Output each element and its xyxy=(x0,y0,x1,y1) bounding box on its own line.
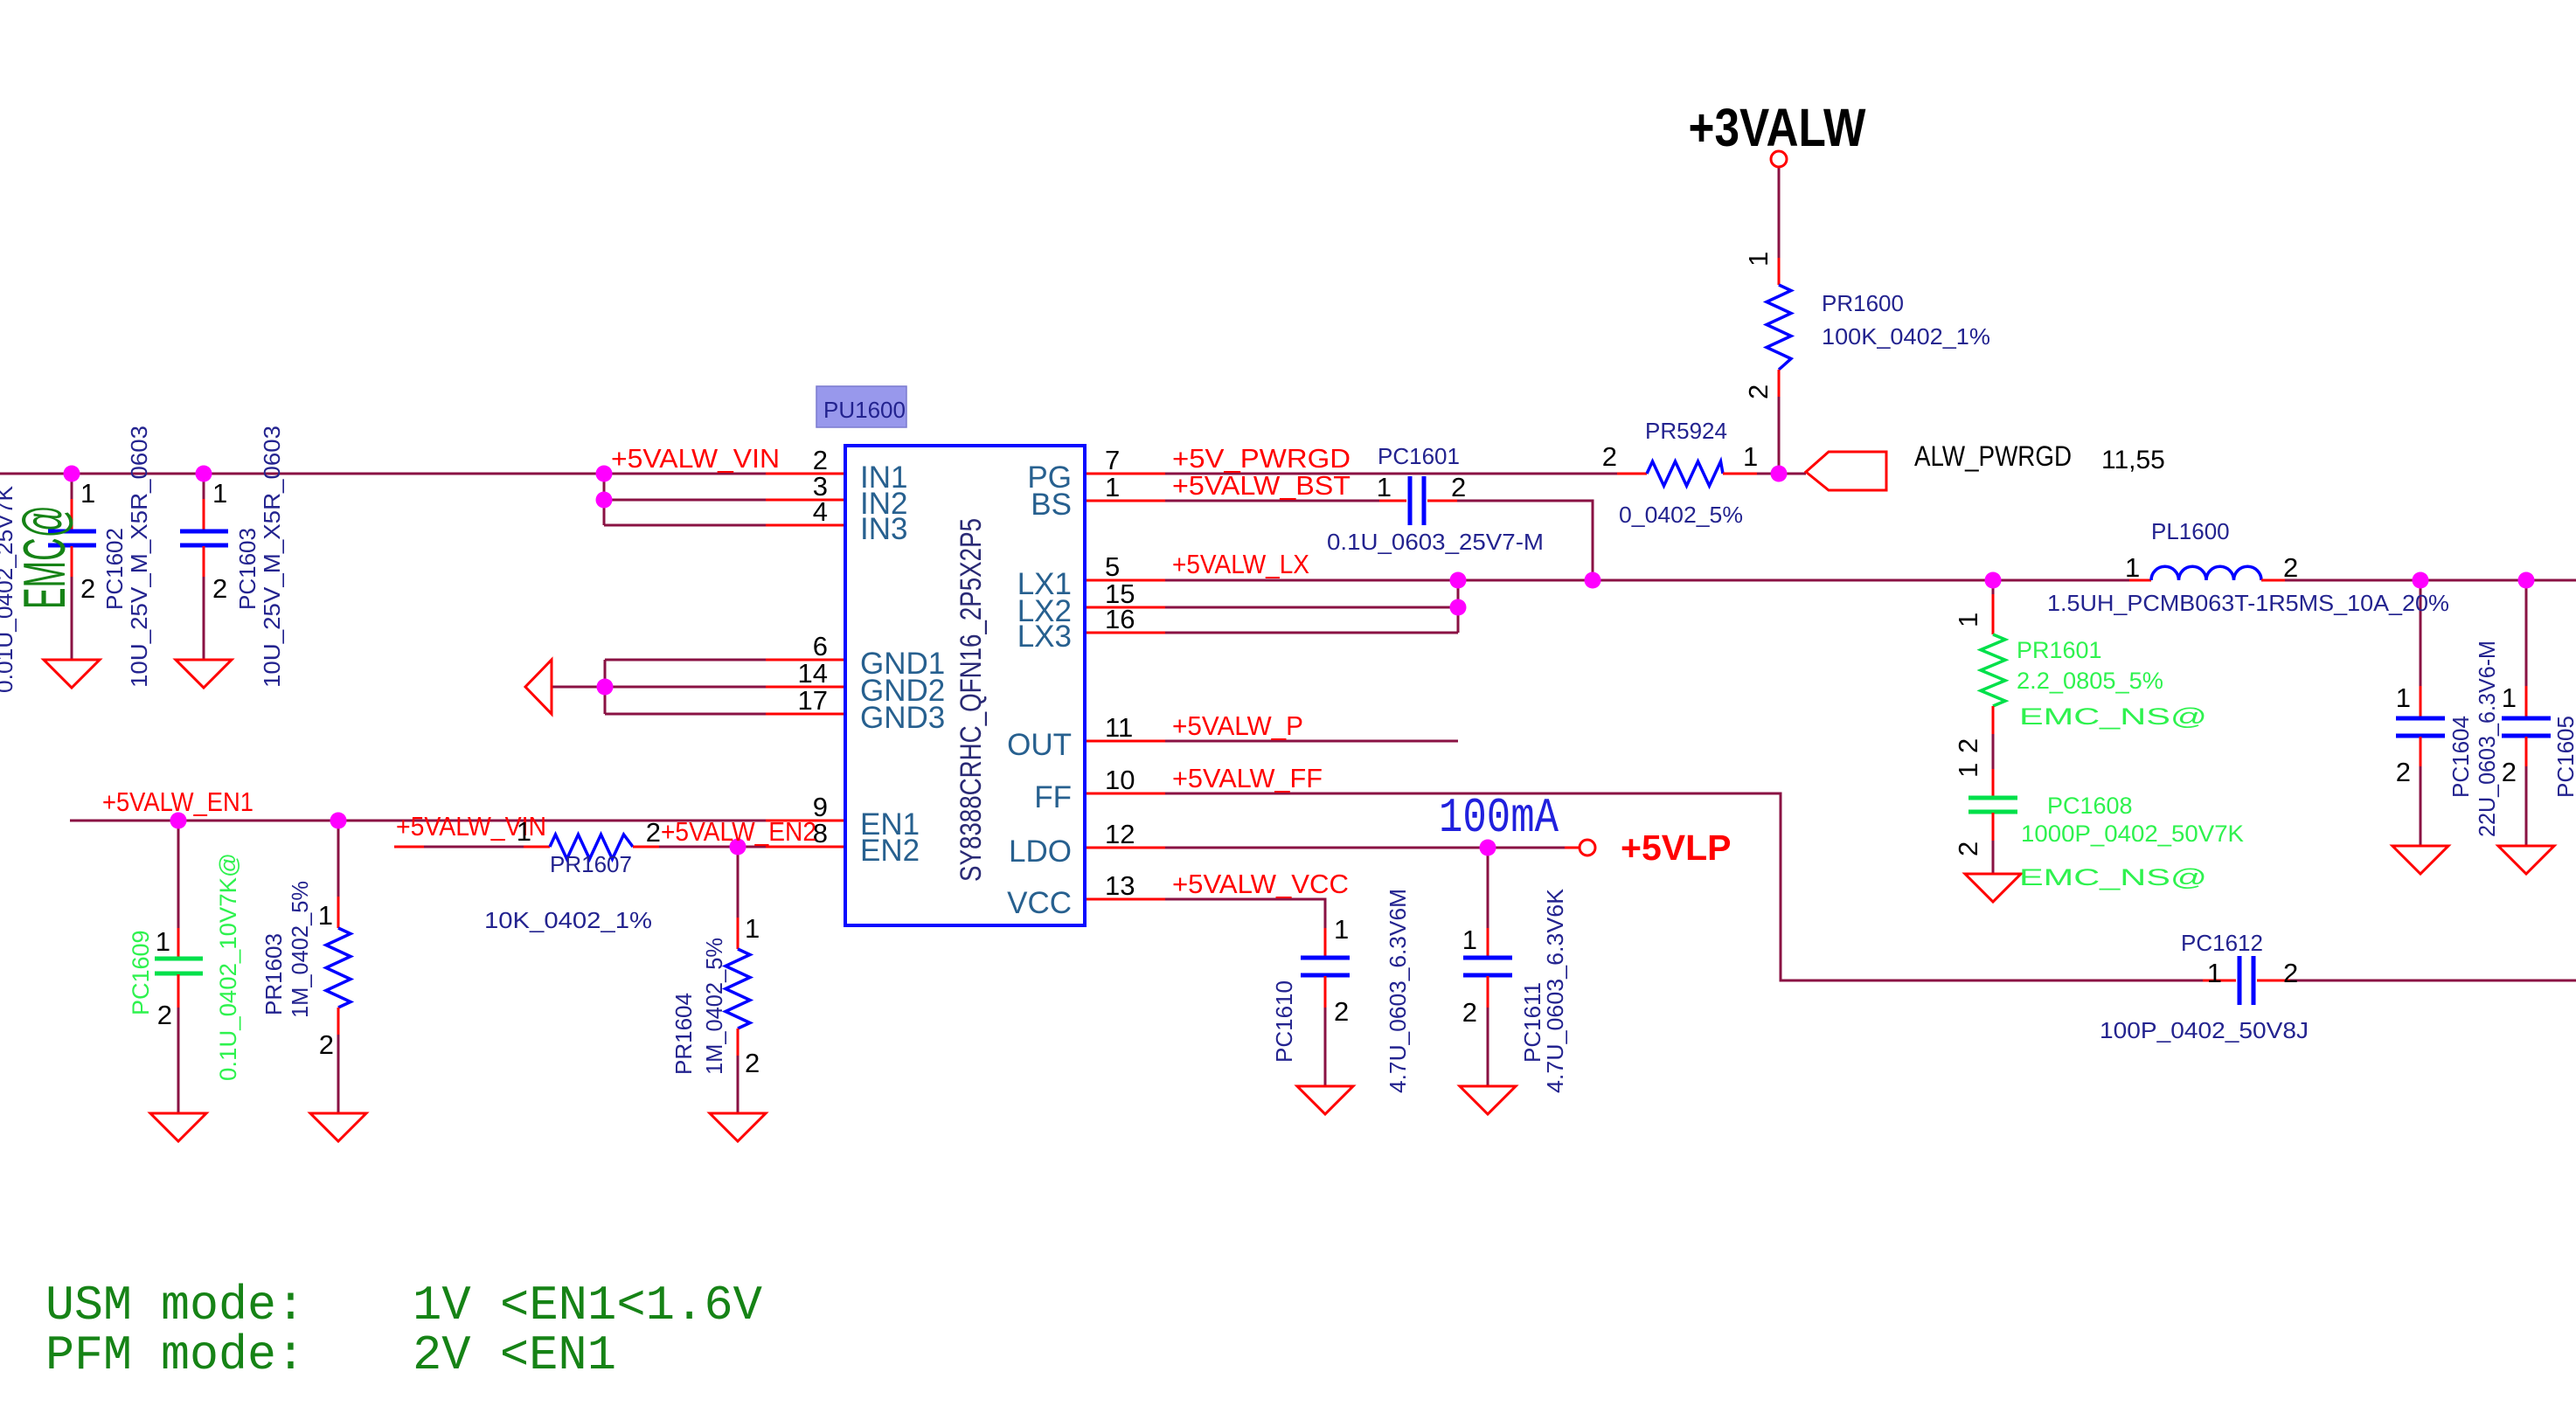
svg-text:EN2: EN2 xyxy=(860,834,920,868)
label PR1600 xyxy=(1822,290,1990,350)
resistor PR1607 xyxy=(524,835,659,859)
node LX1 junction xyxy=(1450,572,1467,589)
svg-text:2: 2 xyxy=(2283,552,2298,583)
svg-text:+5V_PWRGD: +5V_PWRGD xyxy=(1172,443,1350,474)
svg-text:2: 2 xyxy=(1953,738,1983,753)
svg-text:16: 16 xyxy=(1105,604,1135,634)
pin 2 PC1601 xyxy=(1451,472,1466,502)
pin number 7 xyxy=(1105,445,1120,475)
label PC1602 xyxy=(101,426,152,688)
label PU pin PR5924 xyxy=(1619,418,1743,528)
svg-text:+5VALW_BST: +5VALW_BST xyxy=(1172,470,1350,501)
capacitor PC1602 xyxy=(48,499,96,577)
node LX2 junction xyxy=(1450,599,1467,616)
capacitor PC1603 xyxy=(180,499,228,577)
svg-text:4: 4 xyxy=(813,496,828,527)
svg-text:PFM mode:: PFM mode: xyxy=(45,1327,305,1383)
svg-text:PC1608: PC1608 xyxy=(2047,793,2133,819)
pin name VCC xyxy=(1007,886,1072,920)
ground PC1602 xyxy=(44,660,100,688)
svg-text:PC1609: PC1609 xyxy=(128,930,154,1015)
svg-text:2: 2 xyxy=(157,1000,172,1030)
note PFM mode xyxy=(45,1327,616,1383)
node PC1602 on +5VALW_VIN xyxy=(64,466,80,482)
svg-text:PC1602: PC1602 xyxy=(101,528,128,610)
pin 2 PC1604 xyxy=(2396,757,2411,787)
svg-text:1: 1 xyxy=(1462,925,1477,955)
pin 1 PC1610 xyxy=(1334,914,1349,945)
svg-text:1: 1 xyxy=(1743,441,1758,472)
svg-text:10: 10 xyxy=(1105,765,1135,795)
svg-text:PR1604: PR1604 xyxy=(670,993,697,1075)
svg-text:2: 2 xyxy=(1462,997,1477,1028)
pin name IN1 xyxy=(860,461,907,495)
svg-text:10U_25V_M_X5R_0603: 10U_25V_M_X5R_0603 xyxy=(126,426,152,688)
pin stub BS pin 1 xyxy=(1085,500,1165,502)
svg-text:+5VALW_EN2: +5VALW_EN2 xyxy=(661,816,816,847)
pin 2 PL1600 xyxy=(2283,552,2298,583)
current label 100mA xyxy=(1439,790,1559,846)
node PC1605 junction xyxy=(2518,572,2535,589)
pin stub IN3 pin 4 xyxy=(766,524,845,527)
svg-text:1000P_0402_50V7K: 1000P_0402_50V7K xyxy=(2021,821,2244,847)
pin stub EN1 pin 9 xyxy=(766,820,845,822)
capacitor PC1605 xyxy=(2502,686,2551,766)
pin number 14 xyxy=(798,658,828,689)
power label +3VALW xyxy=(1689,98,1866,157)
ground PC1604 xyxy=(2392,846,2448,874)
pin name GND2 xyxy=(860,674,945,708)
pin stub LX3 pin 16 xyxy=(1085,632,1165,634)
svg-text:+5VALW_LX: +5VALW_LX xyxy=(1172,549,1309,579)
wire +5VALW_EN1 xyxy=(70,820,766,822)
svg-text:11: 11 xyxy=(1105,712,1133,743)
wire LDO to +5VLP xyxy=(1165,847,1565,849)
wire PC1609 upper xyxy=(177,821,180,928)
wire IN2/IN3 branch vertical xyxy=(603,474,606,525)
svg-text:SY8388CRHC_QFN16_2P5X2P5: SY8388CRHC_QFN16_2P5X2P5 xyxy=(955,518,988,882)
wire +5VALW_VIN bus xyxy=(0,473,766,475)
pin 2 PC1610 xyxy=(1334,996,1349,1027)
node PR1601/PL1600 junction xyxy=(1985,572,2002,589)
pin number 3 xyxy=(813,471,828,502)
svg-text:1: 1 xyxy=(517,816,531,847)
pin stub GND1 pin 6 xyxy=(766,659,845,661)
svg-text:PC1601: PC1601 xyxy=(1378,443,1460,469)
ground PR1603 xyxy=(310,1113,366,1141)
svg-text:6: 6 xyxy=(813,631,828,661)
svg-text:2: 2 xyxy=(2283,958,2298,988)
pin 2 PC1603 xyxy=(212,573,227,604)
svg-text:22U_0603_6.3V6-M: 22U_0603_6.3V6-M xyxy=(2474,641,2500,837)
wire PR1604 upper xyxy=(737,847,739,918)
svg-text:2: 2 xyxy=(1953,842,1983,856)
svg-text:1M_0402_5%: 1M_0402_5% xyxy=(287,881,313,1018)
svg-text:17: 17 xyxy=(798,685,828,716)
svg-text:1: 1 xyxy=(1105,472,1120,502)
svg-text:1V <EN1<1.6V: 1V <EN1<1.6V xyxy=(413,1278,762,1333)
pin number 15 xyxy=(1105,578,1135,609)
node ALW_PWRGD junction xyxy=(1771,466,1788,482)
label PR1604 xyxy=(670,938,727,1075)
capacitor PC1611 xyxy=(1463,928,1512,1008)
pin stub GND2 pin 14 xyxy=(766,686,845,689)
svg-text:1: 1 xyxy=(1377,472,1392,502)
svg-text:FF: FF xyxy=(1034,780,1072,814)
svg-text:BS: BS xyxy=(1031,488,1072,522)
label EMC_NS@ lower xyxy=(2019,864,2207,890)
pin name PG xyxy=(1027,461,1072,495)
pin stub FF pin 10 xyxy=(1085,793,1165,795)
label PR1601 xyxy=(2017,637,2163,694)
svg-text:1.5UH_PCMB063T-1R5MS_10A_20%: 1.5UH_PCMB063T-1R5MS_10A_20% xyxy=(2047,590,2449,616)
svg-text:2V <EN1: 2V <EN1 xyxy=(413,1327,616,1383)
svg-text:PC1604: PC1604 xyxy=(2448,716,2474,798)
wire PR1603 lower xyxy=(337,1035,340,1113)
svg-text:12: 12 xyxy=(1105,819,1135,849)
wire GND vertical xyxy=(604,660,607,714)
svg-text:PC1603: PC1603 xyxy=(234,528,260,610)
pin 1 PC1612 xyxy=(2207,958,2222,988)
wire LX3 xyxy=(1165,632,1458,634)
pin name GND1 xyxy=(860,647,945,681)
wire GND2 xyxy=(552,686,766,689)
node GND2 branch xyxy=(597,679,614,696)
pin stub LX2 pin 15 xyxy=(1085,606,1165,609)
net label +5VALW_EN1 xyxy=(102,786,253,817)
pin 2 PR1604 xyxy=(745,1048,760,1078)
pin 1 PC1601 xyxy=(1377,472,1392,502)
pin stub VCC pin 13 xyxy=(1085,898,1165,901)
pin 2 PR5924 xyxy=(1602,441,1617,472)
svg-text:1: 1 xyxy=(156,926,170,957)
power terminal +3VALW xyxy=(1771,151,1787,167)
pin 1 PR1607 xyxy=(517,816,531,847)
pin 1 PC1608 xyxy=(1953,763,1983,778)
pin stub LX1 pin 5 xyxy=(1085,579,1165,582)
net label +5VALW_VIN top xyxy=(611,443,780,474)
note USM mode xyxy=(45,1278,762,1333)
wire PC1612 net right xyxy=(2290,980,2576,982)
label PC1610 xyxy=(1271,889,1411,1093)
svg-text:PC1610: PC1610 xyxy=(1271,980,1297,1063)
svg-text:PR1607: PR1607 xyxy=(550,851,632,877)
pin 2 PC1608 xyxy=(1953,842,1983,856)
pin name LDO xyxy=(1009,835,1072,869)
svg-text:+3VALW: +3VALW xyxy=(1689,98,1866,157)
svg-text:1: 1 xyxy=(318,900,333,931)
pin 1 PC1609 xyxy=(156,926,170,957)
svg-text:EMC@: EMC@ xyxy=(11,505,78,609)
svg-text:PR1600: PR1600 xyxy=(1822,290,1904,316)
svg-text:1: 1 xyxy=(2502,682,2517,713)
label PR1603 xyxy=(260,881,313,1018)
pin number 17 xyxy=(798,685,828,716)
svg-text:1: 1 xyxy=(80,478,95,509)
svg-text:10K_0402_1%: 10K_0402_1% xyxy=(484,907,652,933)
node PR1603 on +5VALW_EN1 xyxy=(330,813,347,829)
svg-text:PL1600: PL1600 xyxy=(2151,518,2230,544)
pin 1 PR1603 xyxy=(318,900,333,931)
svg-text:14: 14 xyxy=(798,658,828,689)
net label +5VALW_LX xyxy=(1172,549,1309,579)
svg-text:2: 2 xyxy=(646,817,661,848)
wire +5VALW_EN2 xyxy=(659,846,766,848)
svg-text:100mA: 100mA xyxy=(1439,790,1559,846)
label PL1600 xyxy=(2047,518,2449,616)
pin stub PG pin 7 xyxy=(1085,473,1165,475)
pin number 10 xyxy=(1105,765,1135,795)
ground PR1604 xyxy=(710,1113,766,1141)
svg-text:2: 2 xyxy=(745,1048,760,1078)
wire PC1611 lower xyxy=(1487,1008,1489,1086)
wire +5VALW_VIN EN2 left xyxy=(394,846,524,848)
wire PC1603 lower xyxy=(203,575,205,660)
label EMC_NS@ upper xyxy=(2019,703,2207,730)
svg-text:PC1612: PC1612 xyxy=(2181,930,2263,956)
net label +5VALW_FF xyxy=(1172,763,1323,793)
net label +5V_PWRGD xyxy=(1172,443,1350,474)
wire PC1605 lower xyxy=(2525,766,2528,846)
svg-text:2: 2 xyxy=(1743,384,1774,399)
svg-text:PR1603: PR1603 xyxy=(260,933,287,1015)
svg-text:+5VALW_EN1: +5VALW_EN1 xyxy=(102,786,253,817)
op-amp U1 highlight PU1600 xyxy=(816,386,906,427)
label PC1603 xyxy=(234,426,285,688)
label 0.01U cap offscreen xyxy=(0,485,17,693)
svg-text:2: 2 xyxy=(2502,757,2517,787)
node IN2 branch xyxy=(596,492,613,509)
wire +5VALW_FF xyxy=(1165,793,2203,980)
sheet reference 11,55 xyxy=(2101,446,2165,474)
wire +5VALW_LX rail xyxy=(1165,579,2129,582)
power label +5VLP xyxy=(1621,828,1731,868)
wire PR1601 to PC1608 xyxy=(1992,734,1995,769)
pin 1 PC1602 xyxy=(80,478,95,509)
pin name EN1 xyxy=(860,807,920,842)
label PC1605 xyxy=(2552,716,2576,798)
wire IN2 xyxy=(604,499,766,502)
node PC1609 on +5VALW_EN1 xyxy=(170,813,187,829)
ground PC1610 xyxy=(1297,1086,1353,1114)
svg-text:PU1600: PU1600 xyxy=(823,397,906,423)
svg-text:2: 2 xyxy=(1602,441,1617,472)
resistor PR1601 xyxy=(1981,594,2005,734)
pin name LX3 xyxy=(1017,620,1072,654)
pin name IN2 xyxy=(860,487,907,521)
pin 1 PR1604 xyxy=(745,913,760,944)
net flag text ALW_PWRGD xyxy=(1914,440,2072,472)
pin 2 PC1612 xyxy=(2283,958,2298,988)
wire GND3 xyxy=(605,713,766,716)
svg-text:1: 1 xyxy=(1743,252,1774,267)
wire +5VALW_P xyxy=(1165,740,1458,743)
pin 2 PC1602 xyxy=(80,573,95,604)
pin name EN2 xyxy=(860,834,920,868)
svg-text:2: 2 xyxy=(80,573,95,604)
svg-text:PR1601: PR1601 xyxy=(2017,637,2102,663)
svg-text:100K_0402_1%: 100K_0402_1% xyxy=(1822,323,1990,350)
pin number 5 xyxy=(1105,551,1120,582)
net label +5VALW_EN2 xyxy=(661,816,816,847)
svg-text:2: 2 xyxy=(1451,472,1466,502)
svg-text:0.01U_0402_25V7K: 0.01U_0402_25V7K xyxy=(0,485,17,693)
ground PC1605 xyxy=(2498,846,2554,874)
svg-text:2: 2 xyxy=(319,1029,334,1060)
pin 2 PR1600 xyxy=(1743,384,1774,399)
wire PR1601 upper xyxy=(1992,580,1995,594)
wire PC1605 upper xyxy=(2525,580,2528,686)
pin name FF xyxy=(1034,780,1072,814)
pin 2 PR1601 xyxy=(1953,738,1983,753)
pin name BS xyxy=(1031,488,1072,522)
pin stub +5VLP xyxy=(1565,847,1580,849)
wire PC1611 upper xyxy=(1487,848,1489,928)
capacitor PC1604 xyxy=(2396,686,2445,766)
pin number 12 xyxy=(1105,819,1135,849)
pin stub LDO pin 12 xyxy=(1085,847,1165,849)
svg-text:OUT: OUT xyxy=(1007,728,1072,762)
svg-text:+5VALW_VCC: +5VALW_VCC xyxy=(1172,869,1349,899)
node PR1604 on +5VALW_EN2 xyxy=(730,839,746,855)
wire PC1610 lower xyxy=(1324,1008,1327,1086)
capacitor PC1610 xyxy=(1301,928,1350,1008)
capacitor PC1601 xyxy=(1379,476,1457,525)
svg-text:LDO: LDO xyxy=(1009,835,1072,869)
pin 2 PC1611 xyxy=(1462,997,1477,1028)
svg-text:4.7U_0603_6.3V6K: 4.7U_0603_6.3V6K xyxy=(1542,888,1568,1093)
pin 1 PR1601 xyxy=(1953,613,1983,627)
node BST to LX junction xyxy=(1585,572,1601,589)
label PC1608 xyxy=(2021,793,2244,847)
pin stub GND3 pin 17 xyxy=(766,713,845,716)
pin number 8 xyxy=(813,818,828,848)
label PC1604 xyxy=(2448,641,2500,837)
svg-text:2: 2 xyxy=(212,573,227,604)
wire PC1602 lower xyxy=(71,575,73,660)
pin 1 PC1611 xyxy=(1462,925,1477,955)
net label +5VALW_BST xyxy=(1172,470,1350,501)
wire IN3 xyxy=(604,524,766,527)
wire LX join vertical xyxy=(1457,580,1460,633)
label PC1601 xyxy=(1327,443,1544,555)
svg-text:+5VLP: +5VLP xyxy=(1621,828,1731,868)
resistor PR1600 xyxy=(1767,258,1791,397)
svg-text:2: 2 xyxy=(2396,757,2411,787)
pin name OUT xyxy=(1007,728,1072,762)
svg-text:0_0402_5%: 0_0402_5% xyxy=(1619,502,1743,528)
node PC1611 on LDO xyxy=(1480,840,1496,856)
ground PC1603 xyxy=(176,660,232,688)
pin number 13 xyxy=(1105,870,1135,901)
ground PC1611 xyxy=(1460,1086,1516,1114)
pin number 9 xyxy=(813,792,828,822)
svg-text:100P_0402_50V8J: 100P_0402_50V8J xyxy=(2100,1017,2309,1043)
svg-text:1: 1 xyxy=(2207,958,2222,988)
pin 2 PR1603 xyxy=(319,1029,334,1060)
pin 1 PC1603 xyxy=(212,478,227,509)
label PC1609 xyxy=(128,853,241,1081)
svg-text:4.7U_0603_6.3V6M: 4.7U_0603_6.3V6M xyxy=(1385,889,1411,1093)
svg-text:IN3: IN3 xyxy=(860,512,907,546)
flag ALW_PWRGD xyxy=(1806,452,1886,490)
pin number 1 xyxy=(1105,472,1120,502)
pin 1 PC1604 xyxy=(2396,682,2411,713)
wire +5VALW_BST left xyxy=(1165,500,1379,502)
node PC1603 on +5VALW_VIN xyxy=(196,466,212,482)
pin 1 PR1600 xyxy=(1743,252,1774,267)
net label +5VALW_P xyxy=(1172,710,1303,741)
wire PC1608 lower xyxy=(1992,841,1995,874)
inductor PL1600 xyxy=(2129,566,2285,580)
resistor PR1604 xyxy=(726,918,750,1056)
svg-text:1: 1 xyxy=(2396,682,2411,713)
svg-text:+5VALW_FF: +5VALW_FF xyxy=(1172,763,1323,793)
pin name IN3 xyxy=(860,512,907,546)
svg-text:2: 2 xyxy=(1334,996,1349,1027)
svg-text:7: 7 xyxy=(1105,445,1120,475)
pin stub IN1 pin 2 xyxy=(766,473,845,475)
pin 1 PL1600 xyxy=(2125,552,2140,583)
wire PC1602 upper xyxy=(71,474,73,501)
svg-text:1: 1 xyxy=(1953,613,1983,627)
svg-text:ALW_PWRGD: ALW_PWRGD xyxy=(1914,440,2072,472)
label EMC@ xyxy=(11,505,78,609)
svg-text:EMC_NS@: EMC_NS@ xyxy=(2019,703,2207,730)
terminal +5VLP xyxy=(1580,840,1595,855)
wire +5VALW_BST right to LX xyxy=(1457,501,1593,580)
svg-text:1: 1 xyxy=(745,913,760,944)
svg-text:LX3: LX3 xyxy=(1017,620,1072,654)
wire LX rail right of PL1600 xyxy=(2285,579,2576,582)
svg-text:5: 5 xyxy=(1105,551,1120,582)
net label +5VALW_VIN EN2 xyxy=(396,811,546,842)
label PC1612 xyxy=(2100,930,2309,1043)
pin name LX2 xyxy=(1017,594,1072,628)
capacitor PC1608 xyxy=(1968,769,2017,841)
svg-text:0.1U_0402_10V7K@: 0.1U_0402_10V7K@ xyxy=(215,853,241,1081)
ground PC1608 xyxy=(1965,874,2021,902)
svg-text:1M_0402_5%: 1M_0402_5% xyxy=(701,938,727,1075)
pin 2 PC1609 xyxy=(157,1000,172,1030)
IC PU1600 body SY8388CRHC_QFN16_2P5X2P5 xyxy=(845,446,1085,925)
pin 1 PC1605 xyxy=(2502,682,2517,713)
node PC1604 junction xyxy=(2413,572,2429,589)
svg-text:0.1U_0603_25V7-M: 0.1U_0603_25V7-M xyxy=(1327,529,1544,555)
resistor PR5924 xyxy=(1617,461,1757,486)
ground arrow GND pins xyxy=(525,660,552,714)
wire +5VALW_VCC xyxy=(1165,899,1325,928)
pin 2 PC1605 xyxy=(2502,757,2517,787)
svg-text:PC1605: PC1605 xyxy=(2552,716,2576,798)
pin stub IN2 pin 3 xyxy=(766,499,845,502)
pin stub EN2 pin 8 xyxy=(766,846,845,848)
capacitor PC1612 xyxy=(2203,956,2290,1005)
pin name GND3 xyxy=(860,701,945,735)
wire PC1604 upper xyxy=(2420,580,2422,686)
wire PR5924 to ALW_PWRGD flag xyxy=(1757,473,1806,475)
pin number 16 xyxy=(1105,604,1135,634)
svg-text:+5VALW_P: +5VALW_P xyxy=(1172,710,1303,741)
pin number 4 xyxy=(813,496,828,527)
svg-text:USM mode:: USM mode: xyxy=(45,1278,305,1333)
label PC1611 xyxy=(1519,888,1568,1093)
wire PC1609 lower xyxy=(177,1008,180,1113)
label PR1607 xyxy=(484,851,652,933)
net label +5VALW_VCC xyxy=(1172,869,1349,899)
ground PC1609 xyxy=(150,1113,206,1141)
svg-text:2.2_0805_5%: 2.2_0805_5% xyxy=(2017,668,2163,694)
